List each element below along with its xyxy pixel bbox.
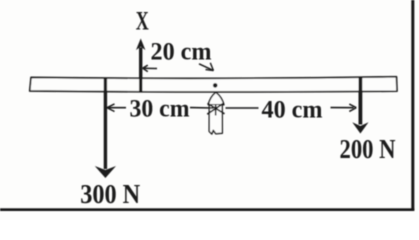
200 N force arrow (downward, right) [358, 77, 362, 125]
svg-text:20 cm: 20 cm [151, 39, 212, 66]
300 N force arrow (downward, left) [104, 78, 107, 170]
svg-text:X: X [136, 6, 149, 35]
svg-text:200 N: 200 N [340, 134, 396, 164]
20 cm dimension slanted arrow toward pivot dot [199, 64, 214, 71]
beam (lever bar) [30, 77, 397, 92]
fulcrum wedge below beam [208, 92, 224, 105]
pivot dot on beam [213, 83, 218, 88]
bottom page border [0, 208, 414, 211]
right page border [411, 0, 414, 211]
20 cm dimension left tick (arrow to X line) [143, 67, 157, 69]
40 cm dimension line (right of pivot) [226, 107, 259, 109]
svg-text:40 cm: 40 cm [262, 97, 323, 124]
crossing at fulcrum (arrowheads X) [207, 103, 224, 116]
30 cm dimension line (left of pivot) [107, 107, 126, 109]
svg-text:300 N: 300 N [80, 179, 140, 209]
force X arrow (upward) [139, 48, 142, 93]
support post below fulcrum [209, 105, 222, 134]
svg-text:30 cm: 30 cm [130, 96, 190, 123]
